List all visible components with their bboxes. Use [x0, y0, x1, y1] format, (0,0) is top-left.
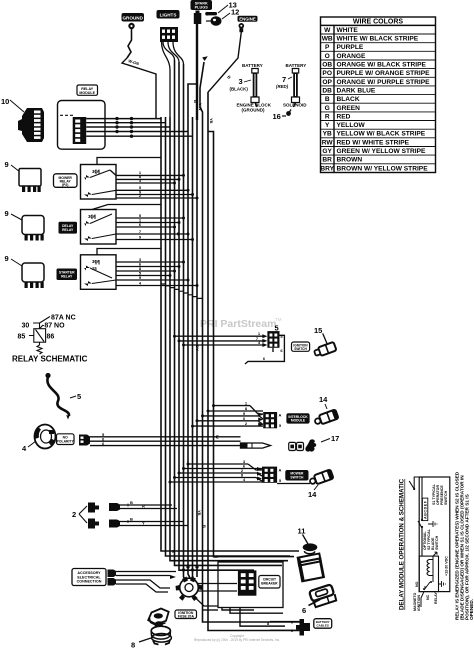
svg-text:WIRE COLORS: WIRE COLORS	[353, 19, 403, 26]
svg-text:P: P	[325, 44, 330, 51]
svg-text:BREAKER: BREAKER	[261, 581, 278, 585]
svg-text:LIGHTS: LIGHTS	[160, 13, 177, 18]
svg-text:B: B	[193, 100, 198, 103]
svg-text:(P2): (P2)	[62, 183, 68, 187]
svg-text:RELAY: RELAY	[61, 275, 73, 279]
svg-text:ORANGE: ORANGE	[337, 53, 367, 60]
svg-text:OPENED.: OPENED.	[469, 599, 474, 620]
svg-text:GREEN: GREEN	[337, 105, 361, 112]
svg-text:IGNITION: IGNITION	[417, 595, 421, 611]
svg-text:RED: RED	[337, 113, 351, 120]
svg-text:SWITCH: SWITCH	[444, 490, 448, 505]
svg-text:DARK BLUE: DARK BLUE	[337, 88, 376, 95]
svg-text:BRY: BRY	[320, 165, 334, 172]
svg-text:W: W	[215, 435, 220, 439]
svg-text:ENGINE: ENGINE	[239, 17, 256, 22]
svg-text:R: R	[325, 113, 330, 120]
svg-text:GY: GY	[195, 345, 200, 351]
svg-text:YELLOW: YELLOW	[337, 122, 366, 129]
svg-text:5: 5	[77, 392, 81, 401]
svg-text:POLARITY: POLARITY	[57, 440, 75, 444]
svg-text:BROWN: BROWN	[337, 157, 363, 164]
svg-text:R: R	[142, 504, 145, 509]
svg-text:RELAY: RELAY	[62, 228, 74, 232]
svg-text:14: 14	[319, 395, 328, 404]
svg-text:PRI PartStream: PRI PartStream	[200, 318, 276, 330]
svg-text:NO: NO	[415, 581, 419, 587]
svg-text:W: W	[176, 232, 181, 236]
svg-text:RELAY SCHEMATIC: RELAY SCHEMATIC	[12, 355, 88, 364]
svg-text:FUSE 20A: FUSE 20A	[178, 615, 195, 619]
svg-text:85: 85	[18, 334, 26, 341]
svg-text:SWITCH: SWITCH	[294, 347, 307, 351]
svg-text:OB: OB	[322, 62, 332, 69]
svg-text:SWITCH: SWITCH	[435, 535, 439, 550]
svg-text:A: A	[279, 413, 282, 418]
svg-text:ORANGE W/ PURPLE STRIPE: ORANGE W/ PURPLE STRIPE	[337, 79, 431, 86]
svg-text:Y W: Y W	[198, 103, 203, 111]
svg-text:BR: BR	[322, 157, 332, 164]
svg-text:RELAY: RELAY	[434, 592, 438, 604]
svg-text:GROUND: GROUND	[122, 16, 143, 21]
svg-text:DELAY MODULE OPERATION & SCHEM: DELAY MODULE OPERATION & SCHEMATIC	[399, 478, 406, 610]
svg-text:6: 6	[302, 606, 306, 615]
svg-text:WHITE: WHITE	[337, 27, 359, 34]
svg-text:PLUGS: PLUGS	[195, 6, 209, 10]
svg-text:Y: Y	[325, 122, 330, 129]
svg-text:MODULE: MODULE	[79, 91, 95, 95]
svg-text:RW: RW	[322, 139, 334, 146]
svg-text:YB: YB	[197, 510, 202, 516]
svg-text:16: 16	[273, 112, 281, 121]
svg-text:B: B	[130, 517, 133, 522]
svg-text:PURPLE W/ ORANGE STRIPE: PURPLE W/ ORANGE STRIPE	[337, 70, 431, 77]
svg-text:B: B	[202, 525, 207, 528]
svg-text:11: 11	[298, 527, 306, 536]
svg-text:Y: Y	[142, 521, 145, 526]
svg-text:7: 7	[282, 75, 286, 84]
svg-text:87A NC: 87A NC	[51, 315, 76, 322]
svg-text:(RED): (RED)	[276, 84, 289, 89]
svg-text:GY: GY	[322, 148, 332, 155]
svg-text:+12-20 VDC: +12-20 VDC	[445, 556, 449, 576]
svg-text:17: 17	[331, 434, 339, 443]
svg-text:W: W	[324, 27, 331, 34]
svg-text:(GROUND): (GROUND)	[242, 108, 265, 113]
svg-text:9: 9	[5, 160, 9, 169]
svg-text:B: B	[325, 96, 330, 103]
svg-text:BLACK: BLACK	[337, 96, 360, 103]
svg-text:9: 9	[5, 254, 9, 263]
svg-text:YB: YB	[209, 118, 214, 124]
svg-text:BATTERY: BATTERY	[242, 63, 263, 68]
svg-text:CONNECTION: CONNECTION	[77, 580, 102, 584]
svg-text:A: A	[279, 468, 282, 473]
svg-text:YELLOW W/ BLACK STRIPE: YELLOW W/ BLACK STRIPE	[337, 131, 426, 138]
svg-text:12: 12	[231, 8, 239, 17]
svg-text:BROWN W/ YELLOW STRIPE: BROWN W/ YELLOW STRIPE	[337, 165, 429, 172]
svg-text:14: 14	[308, 490, 317, 499]
svg-text:PURPLE: PURPLE	[337, 44, 364, 51]
svg-text:ABCDEF: ABCDEF	[424, 500, 428, 519]
svg-text:GREEN W/ YELLOW STRIPE: GREEN W/ YELLOW STRIPE	[337, 148, 427, 155]
svg-text:ORANGE W/ BLACK STRIPE: ORANGE W/ BLACK STRIPE	[337, 62, 427, 69]
svg-text:PO: PO	[322, 70, 332, 77]
svg-text:DB: DB	[322, 88, 332, 95]
svg-text:15: 15	[314, 326, 322, 335]
svg-text:RED W/ WHITE STRIPE: RED W/ WHITE STRIPE	[337, 139, 410, 146]
svg-text:30: 30	[22, 323, 30, 330]
svg-text:WHITE W/ BLACK STRIPE: WHITE W/ BLACK STRIPE	[337, 36, 419, 43]
svg-text:WB: WB	[322, 36, 333, 43]
svg-text:8: 8	[131, 641, 135, 650]
svg-text:3: 3	[239, 77, 243, 86]
svg-text:(BLACK): (BLACK)	[230, 87, 249, 92]
svg-text:YB: YB	[323, 131, 332, 138]
svg-text:BATTERY: BATTERY	[286, 63, 307, 68]
svg-text:Reproduced by (c) 200x - 2019: Reproduced by (c) 200x - 2019 by PRI Int…	[194, 638, 280, 642]
svg-text:G: G	[325, 105, 330, 112]
svg-text:2: 2	[72, 510, 76, 519]
svg-text:86: 86	[47, 334, 55, 341]
svg-text:SWITCH: SWITCH	[290, 476, 304, 480]
svg-text:SOLENOID: SOLENOID	[283, 103, 307, 108]
svg-text:R: R	[171, 550, 176, 553]
svg-text:TM: TM	[275, 317, 282, 322]
svg-text:NC: NC	[426, 594, 430, 600]
svg-text:MODULE: MODULE	[291, 419, 306, 423]
svg-text:10: 10	[1, 97, 9, 106]
svg-text:CABLES: CABLES	[317, 624, 329, 628]
svg-text:9: 9	[5, 209, 9, 218]
svg-text:O: O	[325, 53, 330, 60]
svg-text:B: B	[130, 500, 133, 505]
svg-text:OP: OP	[322, 79, 332, 86]
